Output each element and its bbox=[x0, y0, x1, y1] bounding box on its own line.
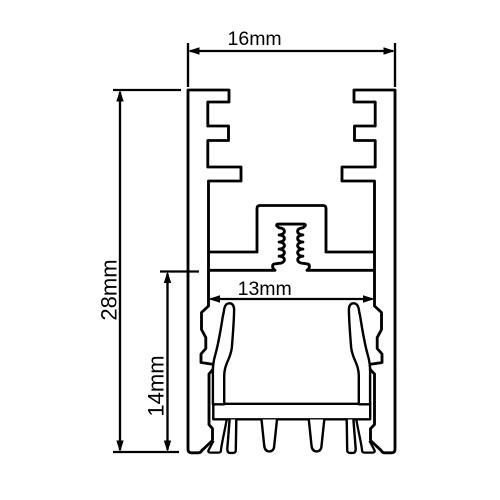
14mm top extension line bbox=[160, 270, 199, 272]
bottom mounting plate bbox=[213, 404, 370, 420]
right foot pad bbox=[356, 420, 374, 452]
14mm bottom arrowhead bbox=[164, 441, 171, 453]
16mm right arrowhead bbox=[384, 47, 396, 54]
14mm top arrowhead bbox=[164, 272, 171, 284]
right spring clip bbox=[349, 303, 370, 404]
left cavity wall segment (shelf to ceiling) bbox=[207, 252, 210, 270]
prong 4 bbox=[347, 420, 356, 453]
16mm dimension line bbox=[190, 50, 393, 52]
svg-text:13mm: 13mm bbox=[238, 278, 292, 300]
prong 2 bbox=[262, 420, 278, 452]
svg-text:14mm: 14mm bbox=[144, 355, 169, 416]
28mm bottom arrowhead bbox=[116, 441, 123, 453]
16mm right extension line bbox=[394, 43, 396, 87]
28mm top arrowhead bbox=[116, 90, 123, 102]
bottom extension line (28mm/14mm) bbox=[113, 451, 179, 453]
28mm dimension line bbox=[119, 92, 121, 450]
svg-text:28mm: 28mm bbox=[97, 259, 122, 320]
svg-text:16mm: 16mm bbox=[228, 28, 282, 50]
right cavity wall segment (shelf to ceiling) bbox=[373, 252, 376, 270]
16mm left arrowhead bbox=[188, 47, 200, 54]
profile body outline (heat-sink fins, screw channel with thread, LED cavity walls, feet) bbox=[188, 90, 395, 453]
left spring clip bbox=[213, 303, 234, 404]
left foot pad bbox=[208, 420, 226, 452]
prong 1 bbox=[227, 420, 236, 453]
13mm left arrowhead bbox=[209, 295, 221, 302]
28mm top extension line bbox=[113, 89, 181, 91]
14mm dimension line bbox=[166, 274, 168, 451]
16mm left extension line bbox=[187, 43, 189, 87]
13mm right arrowhead bbox=[363, 295, 375, 302]
13mm dimension line bbox=[211, 298, 373, 300]
prong 3 bbox=[309, 420, 325, 452]
